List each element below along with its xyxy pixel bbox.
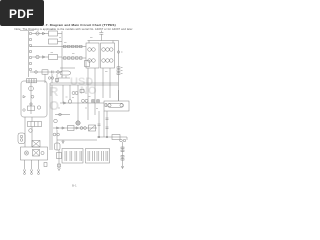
svg-text:R: R [49,84,59,99]
wire drop I [69,85,71,100]
winding W1 [88,48,92,52]
contact pair CP3 [72,92,75,95]
fuse F2 [68,45,71,47]
wire row4 out [58,56,63,58]
wire plug drop 3 [38,160,40,170]
contact pair CP7 [80,127,83,130]
wire drop B [51,74,53,83]
fuse F1 [64,45,67,47]
svg-text:NO: NO [80,85,97,97]
diode D5 [62,127,65,129]
diode D2 [43,56,46,59]
wire drop J2 [103,111,105,137]
resistor R2 [117,70,120,72]
wire row y114 [55,114,70,116]
cell CL9 [105,151,107,161]
terminal T6 [58,164,61,167]
contact pair CP8 [84,127,87,130]
capacitor C7 [61,76,63,78]
meter M3 [29,86,34,91]
pdf badge [0,0,44,26]
diode D6 [76,127,79,129]
cell CL5 [87,151,89,161]
switch S2 [57,71,60,74]
label tick h [51,29,54,31]
winding W10 [110,59,114,63]
label tick j [64,42,67,44]
capacitor C1 [51,71,53,74]
cell CL2 [69,151,71,161]
svg-text:B-1: B-1 [72,183,77,187]
wire left bus [28,31,30,77]
resistor R7 [121,159,124,161]
wire row1 [32,33,49,35]
wire drop to T101 [88,41,90,44]
switch S1 [35,71,38,74]
contact pair CP4 [75,92,78,95]
terminal T5 [44,163,47,167]
plug P7 [29,68,32,71]
wire drop C [56,74,58,83]
wire row2 out [58,41,63,43]
wire drop J [77,85,79,121]
wire top header [88,40,119,42]
wire cap feed [100,31,102,33]
cell CL4 [79,151,81,161]
lamp L2 [96,99,100,103]
label tick e [85,107,87,109]
fuse F5 [80,45,83,47]
terminal T4 [105,104,107,107]
resistor R4 [121,147,124,149]
switch S4 [59,113,62,116]
switch S3 [68,100,72,104]
wire aux drop [58,150,60,168]
wire plug drop 1 [24,160,26,170]
motor M1 [36,32,39,35]
switch S9 [41,151,44,154]
node N2 [106,136,107,137]
transformer T104 [33,150,40,157]
crystal X1 [55,143,61,150]
winding W6 [106,48,110,52]
motor M2 [36,55,39,58]
svg-text:PDF: PDF [9,7,34,21]
relay K8 [57,153,62,159]
wire row5 [30,71,62,73]
fuse F11 [108,103,124,107]
junction bar [97,136,127,138]
wire drop M [24,117,26,147]
resistor R1 [117,67,120,69]
wire second vertical bus [61,31,63,77]
cell CL1 [64,151,66,161]
control unit box [21,81,47,117]
cell CL3 [74,151,76,161]
wire row4 [32,56,49,58]
terminal T3 [80,90,84,93]
plug P3 [29,44,32,47]
switch S8 [37,106,40,109]
wire mid row [60,102,104,104]
wire cell header [57,139,97,141]
wire right drop [122,142,124,164]
fuse F9 [76,57,79,59]
svg-text:O: O [49,98,59,113]
label tick f [96,108,98,110]
fuse F10 [80,57,83,59]
fuse F6 [64,57,67,59]
wire drop to T102 [112,41,114,44]
resistor R6 [121,156,124,158]
arrow plug A1 [121,164,124,169]
fuse F13 [60,71,71,75]
wire row1 out [58,33,63,35]
wire fuse feed [118,90,120,101]
label tick k [72,53,75,55]
diode D7 [62,141,64,144]
contact pair CP6 [85,99,88,102]
wire drop E [94,68,96,115]
winding W7 [110,48,114,52]
main unit box top edge [50,82,119,84]
transformer T102 [101,43,115,68]
plug P1 [29,32,32,35]
underline under title words [20,30,34,32]
arrow plug A3 [30,170,33,173]
arrow plug A5 [58,168,61,171]
diode D8 [23,96,26,98]
resistor R3 [117,73,120,75]
label tick l [90,37,93,39]
terminal strip TS1 [28,122,42,127]
watermark letters [49,76,97,113]
fuse unit pill horizontal [60,67,75,69]
switch S7 [30,103,32,105]
cell CL6 [92,151,94,161]
wire under fuse [58,77,70,79]
motor M5 [24,151,28,155]
label tick m [105,71,108,73]
capacitor C6 [98,123,101,125]
label tick J1 [121,51,123,53]
fuse F12 [27,79,37,83]
contact pair CP10 [57,133,60,136]
wire drop A [44,74,46,83]
winding W8 [102,59,106,63]
capacitor C4 [106,117,109,119]
capacitor C3 [99,32,103,34]
plug P2 [29,38,32,41]
fuse F7 [68,57,71,59]
battery box B1 [62,149,83,164]
winding W9 [106,59,110,63]
plug P6 [29,62,32,65]
relay K2 [49,39,58,44]
label tick a [66,96,68,98]
plug P8 [23,109,25,111]
wire drop K [98,111,100,137]
svg-text:Note: The Drawing is applicabl: Note: The Drawing is applicable to the m… [15,27,133,31]
wire plug drop 2 [31,160,33,170]
wire row3 [30,46,86,48]
connector J2 [18,133,25,144]
terminal T1 [56,79,59,82]
transformer T103 [32,141,40,148]
switch S5 [54,119,58,123]
diode D3 [64,102,67,104]
lamp L1 [91,99,95,103]
fuse F4 [76,45,79,47]
contact pair CP1 [48,77,50,79]
transformer T101 [86,43,99,68]
wire drop D [87,68,89,120]
wire bar corner [126,137,128,140]
winding W3 [88,59,92,63]
arrow plug A4 [37,170,40,173]
connector J1 [117,51,119,53]
arrow plug A2 [23,170,26,173]
breaker CB1 [89,125,96,131]
fuse F3 [72,45,75,47]
label tick b [72,97,74,99]
terminal T2 [85,61,90,67]
plug P4 [29,50,32,53]
plug P5 [29,56,32,59]
wire inside unit [30,83,32,114]
motor M4 [29,129,33,133]
label tick g [59,37,61,39]
winding W4 [92,59,96,63]
contact pair CP11 [120,139,123,142]
wire right bus [118,41,120,102]
relay K1 [49,31,58,36]
contact pair CP9 [53,133,56,136]
label tick d [58,107,60,109]
wire drop H [62,85,64,103]
wire drop N [31,117,33,122]
label tick c [89,96,91,98]
contact pair CP5 [82,99,85,102]
node N1 [98,136,99,137]
capacitor C2 [52,71,54,74]
wire drop G [109,68,111,98]
relay K3 [49,55,58,60]
label ticks R1-R3 [121,67,123,69]
contact pair CP12 [123,139,126,142]
winding W5 [102,48,106,52]
relay RL1 [76,121,80,125]
wire bottom row [53,127,97,129]
wire drop O [31,127,33,148]
wire row4 right [62,57,86,59]
diode D1 [43,32,46,35]
main unit box left edge [49,83,51,150]
wire drop L [106,111,108,137]
relay K6 [112,135,120,140]
resistor R5 [121,150,124,152]
relay K5 [68,126,75,131]
svg-text:-7. Diagram and Main Circuit: -7. Diagram and Main Circuit Chart (TYPE… [45,23,116,27]
battery box B2 [86,149,110,164]
wire crystal feed [56,130,58,150]
cell CL8 [101,151,103,161]
power unit box [21,147,48,160]
label tick i [51,52,54,54]
switch S6 [31,95,34,98]
capacitor C5 [106,126,109,128]
diode D4 [57,127,60,129]
winding W2 [92,48,96,52]
relay K7 [28,106,35,111]
relay K4 [42,70,48,74]
fuse F8 [72,57,75,59]
cell CL7 [96,151,98,161]
contact pair CP2 [51,77,53,79]
wire drop F [102,68,104,98]
fuse unit box [104,101,129,111]
